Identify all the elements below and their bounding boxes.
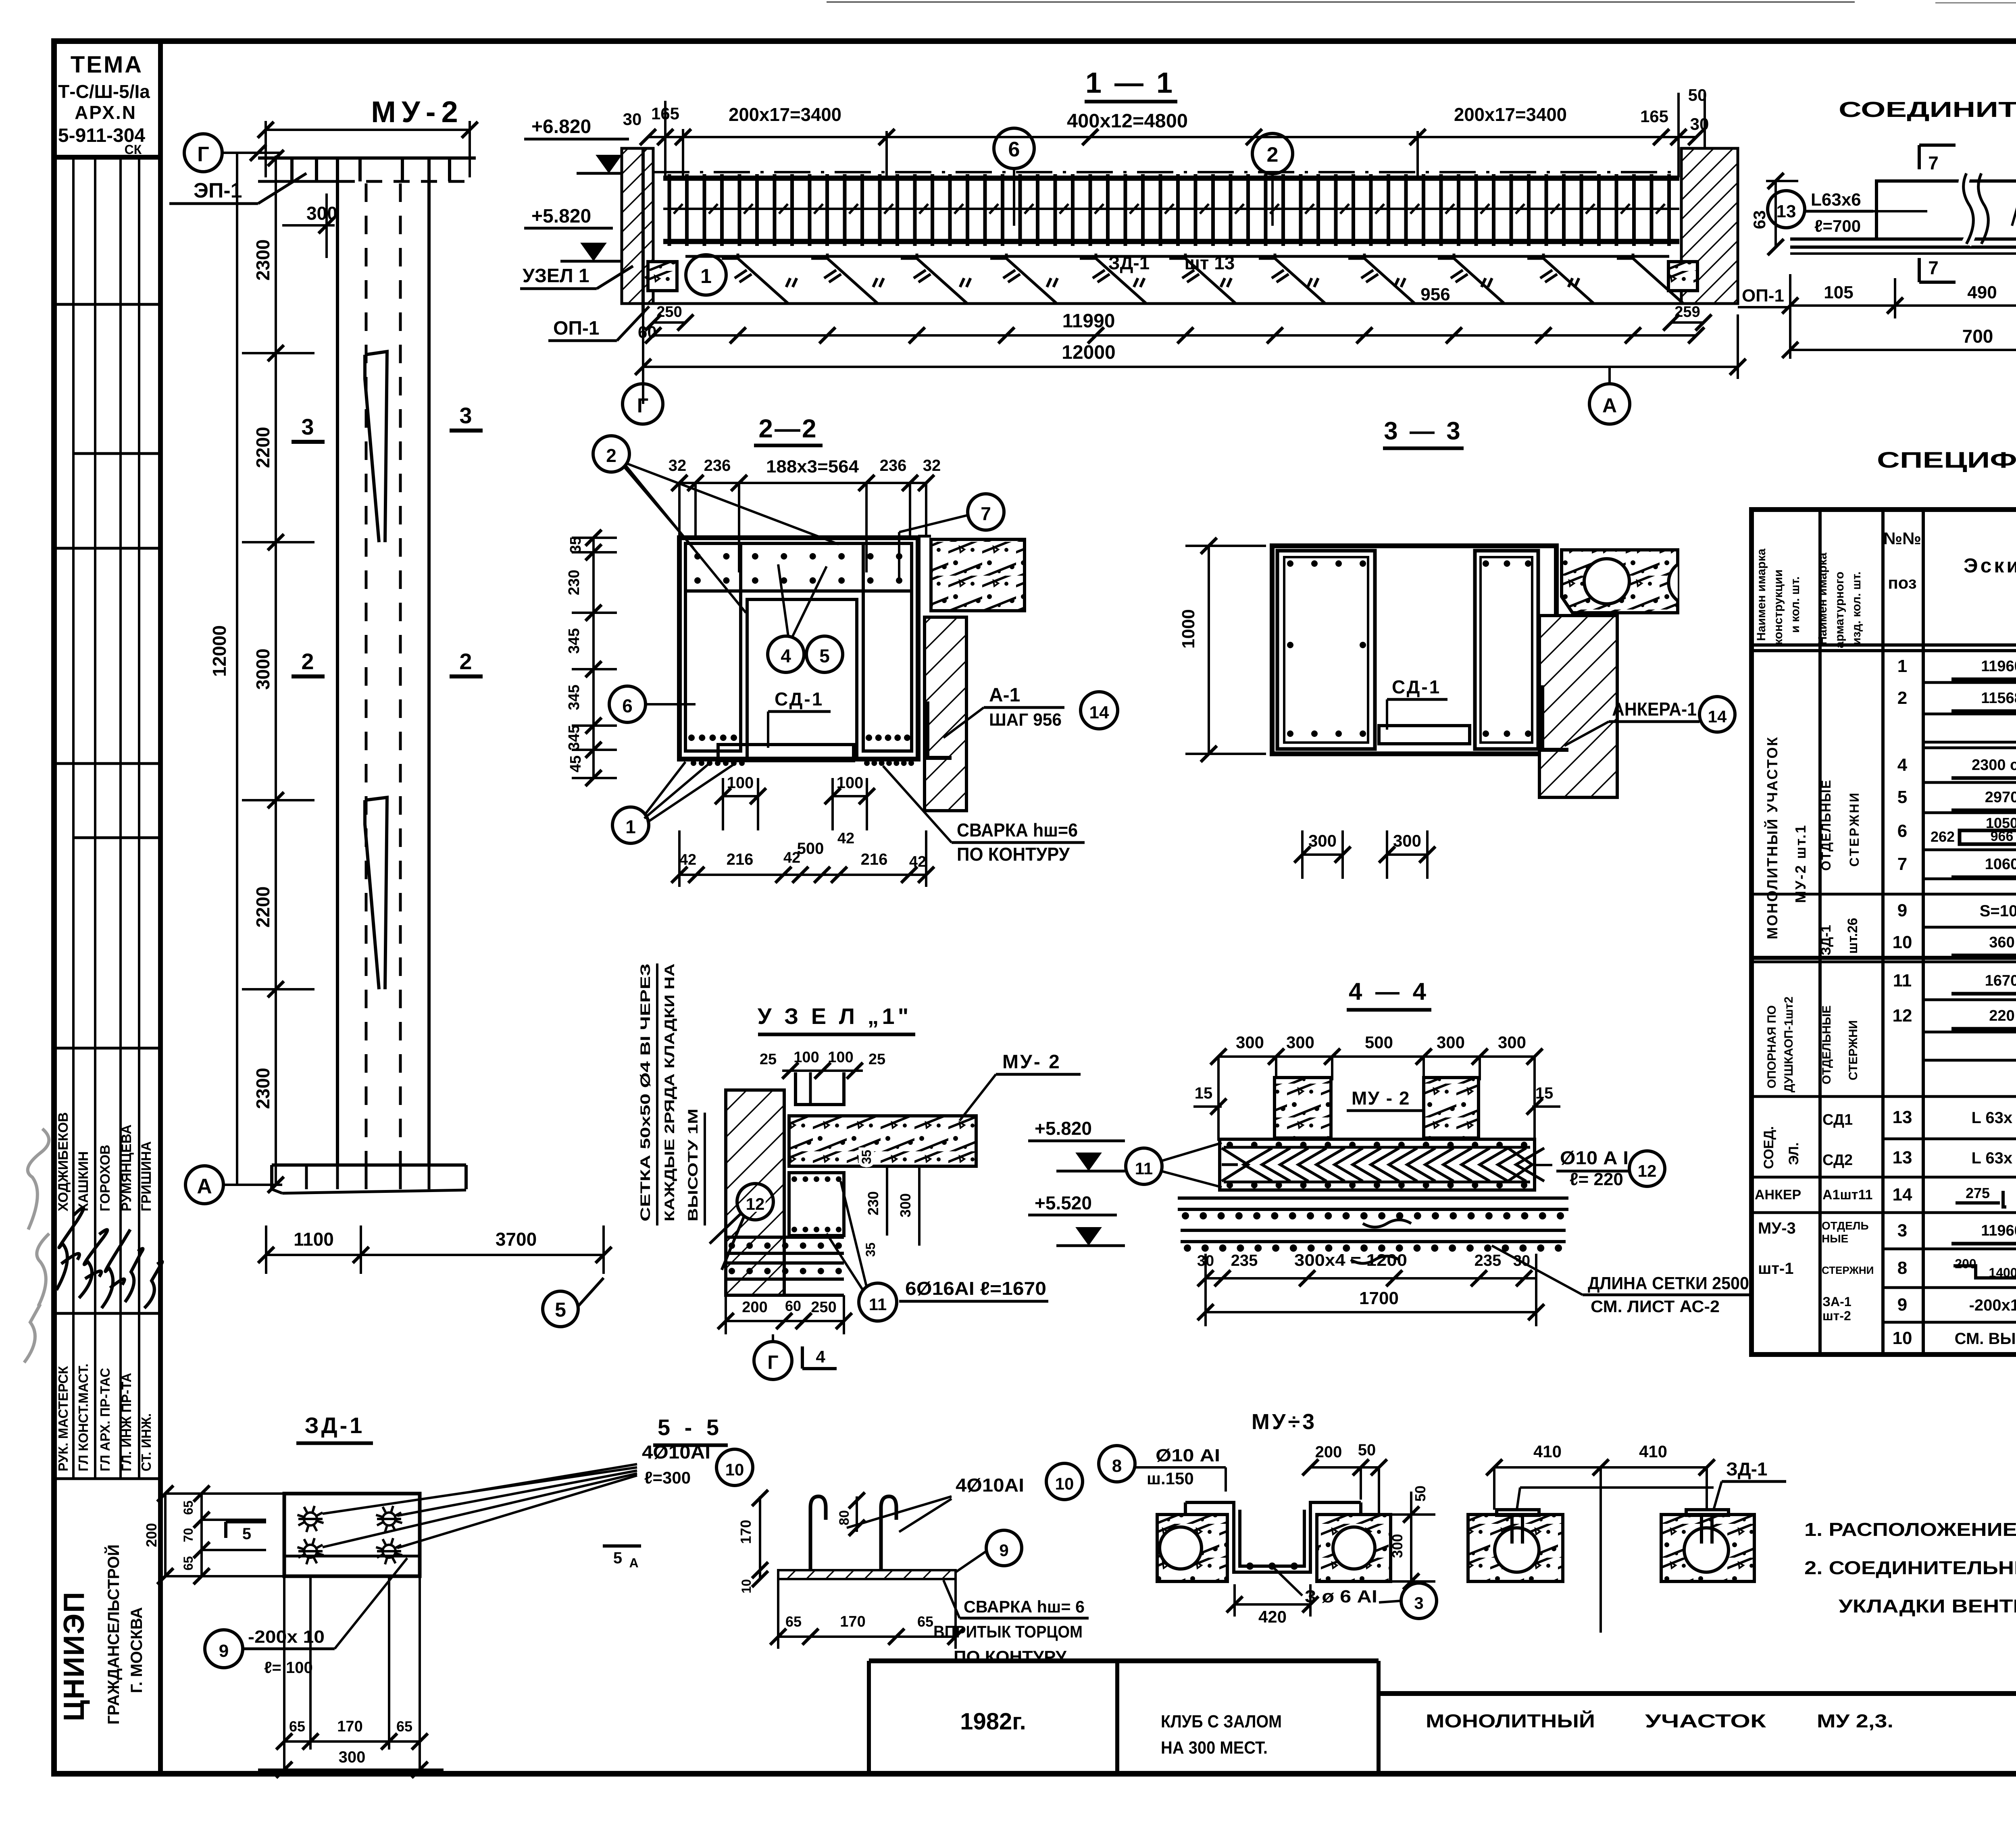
svg-text:15: 15 <box>1535 1084 1554 1102</box>
svg-text:7: 7 <box>1928 152 1939 173</box>
MU-3 right dims 50 300 <box>1410 1492 1412 1581</box>
uzel1 bottom dims 200 60 250 <box>726 1320 844 1322</box>
svg-text:4: 4 <box>781 645 791 666</box>
svg-text:200: 200 <box>143 1523 160 1547</box>
4-4 left block concrete <box>1275 1078 1331 1138</box>
spec table verticals <box>1818 510 1822 1354</box>
svg-text:ГЛ. ИНЖ ПР-ТА: ГЛ. ИНЖ ПР-ТА <box>119 1373 134 1471</box>
svg-text:32: 32 <box>923 457 941 474</box>
svg-text:1400: 1400 <box>1989 1265 2016 1280</box>
svg-text:ЗД-1: ЗД-1 <box>1726 1458 1768 1479</box>
svg-text:МУ 2,3.: МУ 2,3. <box>1817 1710 1893 1731</box>
3-3 anchor bracket <box>1542 685 1568 750</box>
svg-text:11568: 11568 <box>1981 690 2016 707</box>
flag 5 left <box>226 1520 266 1523</box>
svg-text:арматурного: арматурного <box>1833 572 1846 648</box>
svg-text:2: 2 <box>606 445 616 466</box>
svg-text:У З Е Л „1": У З Е Л „1" <box>758 1003 912 1029</box>
circled 6 on beam <box>994 128 1034 169</box>
svg-text:СТЕРЖНИ: СТЕРЖНИ <box>1847 1020 1860 1080</box>
svg-text:5: 5 <box>1897 787 1907 807</box>
svg-text:13: 13 <box>1893 1148 1912 1167</box>
svg-text:5: 5 <box>242 1525 251 1543</box>
svg-text:10: 10 <box>1893 932 1912 952</box>
svg-text:8: 8 <box>1897 1258 1907 1278</box>
svg-text:4: 4 <box>816 1347 825 1366</box>
svg-text:РУК. МАСТЕРСК: РУК. МАСТЕРСК <box>56 1366 71 1471</box>
svg-text:+5.820: +5.820 <box>531 206 591 227</box>
svg-text:236: 236 <box>880 457 907 474</box>
svg-text:РУМЯНЦЕВА: РУМЯНЦЕВА <box>119 1124 134 1211</box>
svg-text:УЧАСТОК: УЧАСТОК <box>1645 1710 1766 1731</box>
MU-2 bottom dim line <box>266 1254 605 1256</box>
4-4 lower band 2 <box>1181 1229 1566 1232</box>
svg-text:3 ø 6 АI: 3 ø 6 АI <box>1305 1587 1377 1606</box>
svg-text:ВЫСОТУ 1М: ВЫСОТУ 1М <box>685 1109 701 1221</box>
svg-text:13: 13 <box>1893 1107 1912 1127</box>
circles 4 5 <box>768 636 804 672</box>
MU-3 right slab <box>1317 1515 1391 1581</box>
svg-text:КЛУБ С ЗАЛОМ: КЛУБ С ЗАЛОМ <box>1161 1712 1282 1731</box>
svg-text:Г: Г <box>637 394 648 417</box>
svg-text:СТЕРЖНИ: СТЕРЖНИ <box>1822 1264 1874 1276</box>
svg-text:10: 10 <box>1055 1474 1074 1493</box>
3-3 right cage <box>1475 551 1538 749</box>
circled 2 on beam <box>1252 133 1293 174</box>
svg-text:ПО КОНТУРУ: ПО КОНТУРУ <box>957 844 1070 865</box>
svg-text:300: 300 <box>1393 831 1421 850</box>
svg-text:2300: 2300 <box>252 239 273 281</box>
strip signatures scribbles <box>56 1208 83 1290</box>
ZD-1 plate <box>284 1494 420 1576</box>
svg-text:ЦНИИЭП: ЦНИИЭП <box>58 1591 90 1721</box>
svg-text:11960: 11960 <box>1981 658 2016 675</box>
svg-text:200: 200 <box>1315 1443 1342 1461</box>
2-2 right slab concrete <box>931 539 1025 611</box>
svg-text:5: 5 <box>613 1549 622 1567</box>
svg-text:-200х 10: -200х 10 <box>248 1627 325 1647</box>
svg-text:ℓ=700: ℓ=700 <box>1814 216 1861 235</box>
svg-text:Ø10 АI: Ø10 АI <box>1156 1446 1220 1465</box>
svg-text:4: 4 <box>1897 755 1908 775</box>
svg-text:2970: 2970 <box>1985 789 2016 806</box>
svg-text:ГОРОХОВ: ГОРОХОВ <box>98 1145 113 1211</box>
circle 13 SD-1 <box>1768 191 1805 228</box>
3-3 hollow slab right <box>1562 550 1678 613</box>
svg-text:235: 235 <box>1231 1252 1258 1269</box>
svg-text:262: 262 <box>1931 828 1955 845</box>
svg-text:МУ- 2: МУ- 2 <box>1002 1051 1061 1073</box>
axis circle A bottom <box>185 1166 223 1204</box>
embedded ZD-1 plates right pair <box>1497 1510 1539 1515</box>
svg-text:12: 12 <box>1893 1006 1912 1026</box>
strip dividers <box>54 303 160 306</box>
svg-text:НЫЕ: НЫЕ <box>1822 1232 1848 1245</box>
svg-text:35: 35 <box>859 1150 874 1164</box>
bent rebar splice bottom <box>365 797 387 989</box>
svg-text:5: 5 <box>819 645 830 666</box>
svg-text:956: 956 <box>1420 285 1450 304</box>
circle 6 leader 2-2 <box>609 686 646 722</box>
5-5 base plate hatched <box>778 1570 956 1579</box>
svg-text:Т-С/Ш-5/Iа: Т-С/Ш-5/Iа <box>58 81 150 102</box>
svg-text:200x17=3400: 200x17=3400 <box>729 104 841 125</box>
svg-text:ℓ=300: ℓ=300 <box>644 1468 691 1487</box>
svg-text:СВАРКА hш=6: СВАРКА hш=6 <box>957 820 1078 841</box>
svg-text:и кол. шт.: и кол. шт. <box>1789 576 1802 633</box>
svg-text:СЕТКА 50х50 Ø4 ВI ЧЕРЕЗ: СЕТКА 50х50 Ø4 ВI ЧЕРЕЗ <box>638 963 653 1221</box>
svg-text:2—2: 2—2 <box>758 414 818 443</box>
svg-text:300: 300 <box>1308 831 1337 850</box>
svg-text:100: 100 <box>727 774 754 792</box>
svg-text:3: 3 <box>301 414 314 439</box>
svg-text:42: 42 <box>909 853 926 870</box>
3-3 outline <box>1272 546 1556 754</box>
svg-text:АРХ.N: АРХ.N <box>75 102 137 123</box>
2-2 dim 100 100 <box>723 795 758 797</box>
svg-text:65: 65 <box>917 1613 933 1630</box>
svg-text:1000: 1000 <box>1179 609 1198 649</box>
svg-text:259: 259 <box>1674 304 1700 320</box>
svg-text:7: 7 <box>1928 257 1939 278</box>
svg-text:165: 165 <box>1640 107 1668 126</box>
svg-text:250: 250 <box>656 304 682 320</box>
uzel1 small channel top <box>796 1072 844 1105</box>
svg-text:МУ-2: МУ-2 <box>371 95 463 129</box>
svg-text:500: 500 <box>797 840 824 857</box>
svg-text:7: 7 <box>1897 854 1907 874</box>
svg-text:НА 300 МЕСТ.: НА 300 МЕСТ. <box>1161 1738 1268 1758</box>
svg-text:300: 300 <box>1437 1033 1465 1052</box>
uzel1 rebar cage below slab <box>789 1173 844 1236</box>
svg-text:2300: 2300 <box>252 1068 273 1109</box>
circle 9 label ZD-1 <box>205 1630 243 1668</box>
svg-text:2: 2 <box>1267 143 1279 166</box>
svg-text:11: 11 <box>1893 971 1912 990</box>
svg-text:1: 1 <box>700 265 712 287</box>
SD-1 dim line 700 <box>1790 349 2016 351</box>
svg-text:170: 170 <box>737 1520 754 1544</box>
svg-text:275: 275 <box>1966 1185 1990 1201</box>
svg-text:5 - 5: 5 - 5 <box>658 1415 723 1440</box>
svg-text:50: 50 <box>1358 1441 1376 1459</box>
svg-text:25: 25 <box>868 1051 885 1068</box>
svg-text:2200: 2200 <box>252 886 273 928</box>
svg-text:1100: 1100 <box>294 1229 334 1250</box>
4-4 beam band chevrons <box>1220 1139 1535 1190</box>
svg-text:МУ - 2: МУ - 2 <box>1352 1088 1410 1109</box>
pencil marks left margin <box>24 1129 49 1363</box>
flag 4 uzel <box>801 1346 804 1369</box>
beam bottom zone with ZD-1 hooks <box>685 255 1669 258</box>
svg-text:ТЕМА: ТЕМА <box>71 52 143 78</box>
svg-text:400x12=4800: 400x12=4800 <box>1067 110 1188 132</box>
svg-text:L 63x 6: L 63x 6 <box>1972 1109 2016 1127</box>
svg-text:ДУШКАОП-1шт2: ДУШКАОП-1шт2 <box>1782 997 1795 1092</box>
signature strip columns <box>72 157 75 1479</box>
svg-text:ГРИШИНА: ГРИШИНА <box>139 1141 154 1211</box>
svg-text:966: 966 <box>1991 829 2014 844</box>
2-2 bottom weld dots <box>691 760 696 766</box>
svg-text:216: 216 <box>861 851 888 868</box>
svg-text:СД2: СД2 <box>1822 1152 1853 1169</box>
svg-text:ОТДЕЛЬНЫЕ: ОТДЕЛЬНЫЕ <box>1819 779 1833 871</box>
svg-text:СД-1: СД-1 <box>775 689 824 709</box>
svg-text:Эскиз: Эскиз <box>1964 554 2016 577</box>
svg-text:2: 2 <box>459 649 472 674</box>
svg-text:300: 300 <box>339 1748 366 1766</box>
svg-text:42: 42 <box>837 830 854 847</box>
svg-text:СПЕЦИФИКАЦИЯ: СПЕЦИФИКАЦИЯ <box>1877 447 2016 472</box>
svg-text:МУ÷3: МУ÷3 <box>1252 1410 1317 1434</box>
axis circle A beam <box>1589 384 1630 424</box>
beam top line <box>653 171 1681 173</box>
svg-text:170: 170 <box>337 1718 362 1735</box>
svg-text:ХОДЖИБЕКОВ: ХОДЖИБЕКОВ <box>56 1112 71 1211</box>
svg-text:420: 420 <box>1258 1607 1287 1626</box>
svg-text:12000: 12000 <box>209 625 230 677</box>
svg-text:ГРАЖДАНСЕЛЬСТРОЙ: ГРАЖДАНСЕЛЬСТРОЙ <box>104 1544 123 1725</box>
2-2 top dim line <box>679 482 926 484</box>
svg-text:СМ. ВЫШЕ: СМ. ВЫШЕ <box>1955 1330 2016 1348</box>
svg-text:9: 9 <box>219 1641 229 1661</box>
2-2 left dim chain <box>592 538 595 778</box>
circle 7 leader 2-2 <box>968 494 1004 530</box>
svg-text:6Ø16АI ℓ=1670: 6Ø16АI ℓ=1670 <box>905 1278 1046 1299</box>
svg-text:L63x6: L63x6 <box>1811 190 1861 210</box>
svg-text:ЭП-1: ЭП-1 <box>194 179 242 202</box>
svg-text:236: 236 <box>704 457 731 474</box>
svg-text:СК: СК <box>125 142 142 157</box>
svg-text:1: 1 <box>625 816 636 837</box>
2-2 SD-1 plate bottom <box>718 745 854 761</box>
svg-text:+5.820: +5.820 <box>1035 1118 1092 1139</box>
2-2 main outline <box>679 538 918 759</box>
svg-text:шт-2: шт-2 <box>1822 1309 1851 1323</box>
MU-3 channel between slabs <box>1185 1502 1361 1572</box>
svg-text:КАШКИН: КАШКИН <box>76 1151 91 1211</box>
svg-text:1 — 1: 1 — 1 <box>1085 67 1175 99</box>
svg-text:300х4 = 1200: 300х4 = 1200 <box>1294 1250 1407 1269</box>
svg-text:345: 345 <box>566 628 583 653</box>
svg-text:7: 7 <box>981 503 991 524</box>
title block top edges <box>869 1658 1379 1663</box>
svg-text:S=10: S=10 <box>1980 902 2016 920</box>
svg-text:188x3=564: 188x3=564 <box>766 457 859 476</box>
svg-text:500: 500 <box>1365 1033 1393 1052</box>
svg-text:изд. кол. шт.: изд. кол. шт. <box>1850 572 1863 645</box>
svg-text:9: 9 <box>999 1541 1008 1560</box>
MU-3 dim 420 <box>1235 1603 1310 1606</box>
svg-text:170: 170 <box>840 1613 865 1630</box>
svg-text:11960: 11960 <box>1981 1222 2016 1239</box>
4-4 top dim line <box>1218 1055 1535 1058</box>
uzel1 slab concrete MU-2 <box>789 1116 976 1166</box>
svg-text:А1шт11: А1шт11 <box>1822 1187 1872 1203</box>
svg-text:+6.820: +6.820 <box>531 116 591 137</box>
svg-text:60: 60 <box>638 322 657 341</box>
3-3 wall below hatched <box>1539 616 1617 797</box>
svg-text:230: 230 <box>865 1191 881 1215</box>
svg-text:50: 50 <box>1412 1486 1429 1502</box>
svg-text:10: 10 <box>1893 1328 1912 1348</box>
svg-text:2: 2 <box>1897 688 1907 708</box>
2-2 left cage <box>685 543 741 751</box>
svg-text:410: 410 <box>1533 1442 1562 1461</box>
svg-text:ОПОРНАЯ ПО: ОПОРНАЯ ПО <box>1765 1005 1779 1088</box>
svg-text:шт.26: шт.26 <box>1845 918 1860 954</box>
uzel1 masonry wall hatched <box>726 1090 784 1295</box>
svg-text:200x17=3400: 200x17=3400 <box>1454 104 1567 125</box>
svg-text:ш.150: ш.150 <box>1147 1469 1194 1488</box>
svg-text:32: 32 <box>669 457 687 474</box>
svg-text:МОНОЛИТНЫЙ: МОНОЛИТНЫЙ <box>1426 1710 1595 1731</box>
dim line 12000 <box>643 366 1738 368</box>
svg-text:30: 30 <box>623 110 642 129</box>
anchor A-1 bracket <box>927 701 952 758</box>
dim line 11990 <box>653 334 1696 337</box>
svg-text:СВАРКА hш= 6: СВАРКА hш= 6 <box>964 1597 1085 1616</box>
svg-text:А: А <box>197 1175 212 1198</box>
svg-text:300: 300 <box>1286 1033 1314 1052</box>
svg-text:14: 14 <box>1708 707 1727 726</box>
svg-text:Г. МОСКВА: Г. МОСКВА <box>128 1607 146 1693</box>
svg-text:шт-1: шт-1 <box>1758 1260 1794 1277</box>
2-2 middle opening <box>747 599 857 759</box>
MU-2 column footing <box>272 1163 466 1167</box>
svg-text:МУ-3: МУ-3 <box>1758 1219 1796 1237</box>
svg-text:30: 30 <box>1690 114 1709 133</box>
svg-text:15: 15 <box>1195 1084 1213 1102</box>
axis circle G beam <box>623 384 663 424</box>
svg-text:ДЛИНА СЕТКИ 2500: ДЛИНА СЕТКИ 2500 <box>1588 1273 1749 1293</box>
svg-text:поз: поз <box>1888 573 1916 592</box>
2-2 top rebar band <box>685 542 912 545</box>
svg-text:8: 8 <box>1112 1456 1122 1476</box>
spec table row lines <box>1923 681 2016 684</box>
svg-text:345: 345 <box>566 725 583 750</box>
svg-text:А: А <box>1602 394 1617 417</box>
4-4 bottom dim chain <box>1206 1277 1536 1280</box>
svg-text:9: 9 <box>1897 1295 1907 1315</box>
svg-text:3: 3 <box>1414 1594 1423 1612</box>
ZD-1 left dims <box>200 1494 203 1576</box>
svg-text:216: 216 <box>727 851 754 868</box>
svg-text:14: 14 <box>1893 1185 1912 1205</box>
svg-text:СОЕДИНИТЕЛЬНАЯ: СОЕДИНИТЕЛЬНАЯ <box>1839 98 2016 122</box>
svg-text:СТ. ИНЖ.: СТ. ИНЖ. <box>139 1413 154 1471</box>
beam rebar cage 1-1 <box>663 176 1679 181</box>
svg-text:14: 14 <box>1089 703 1109 722</box>
svg-text:65: 65 <box>181 1556 196 1571</box>
svg-text:250: 250 <box>811 1299 836 1316</box>
2-2 right cage <box>863 543 912 751</box>
svg-text:Наимен имарка: Наимен имарка <box>1816 553 1829 645</box>
svg-text:42: 42 <box>679 851 696 868</box>
5-5 left hook bar <box>810 1496 826 1570</box>
svg-text:11: 11 <box>1135 1159 1153 1178</box>
svg-text:Г: Г <box>767 1352 778 1373</box>
svg-text:60: 60 <box>785 1298 801 1314</box>
svg-text:200: 200 <box>1955 1257 1976 1271</box>
svg-text:ЗД-1: ЗД-1 <box>1818 925 1834 955</box>
MU-2 top dimension line <box>266 129 470 131</box>
svg-text:1: 1 <box>1897 656 1907 676</box>
svg-text:300: 300 <box>1236 1033 1264 1052</box>
3-3 bottom dims 300 300 <box>1302 853 1343 856</box>
spec table outer <box>1752 510 2016 1354</box>
svg-text:65: 65 <box>181 1500 196 1515</box>
axis circle G uzel <box>754 1342 792 1379</box>
circle 1 leader 2-2 <box>612 807 649 843</box>
svg-text:12000: 12000 <box>1062 342 1115 363</box>
4-4 dim 1700 <box>1206 1311 1536 1313</box>
svg-text:3000: 3000 <box>252 649 273 690</box>
svg-text:А: А <box>629 1556 638 1570</box>
svg-text:L 63x 6: L 63x 6 <box>1972 1149 2016 1167</box>
svg-text:ЭЛ.: ЭЛ. <box>1786 1142 1801 1165</box>
svg-text:35: 35 <box>863 1242 878 1257</box>
svg-text:Наимен имарка: Наимен имарка <box>1755 549 1768 641</box>
svg-text:12: 12 <box>1638 1161 1657 1180</box>
svg-text:АНКЕРА-1: АНКЕРА-1 <box>1612 699 1697 720</box>
break marks SD-1 <box>1964 173 1974 244</box>
svg-text:Г: Г <box>197 143 209 166</box>
svg-text:МУ-2 шт.1: МУ-2 шт.1 <box>1792 824 1809 903</box>
svg-text:1982г.: 1982г. <box>960 1708 1026 1735</box>
circle 5 below MU-2 <box>543 1291 578 1327</box>
MU-3 right pair slabs with ZD-1 <box>1468 1515 1563 1581</box>
2-2 right wall hatched <box>925 617 966 811</box>
svg-text:100: 100 <box>828 1049 853 1066</box>
spec section dividers <box>1752 956 2016 960</box>
bent rebar splice top <box>365 352 387 542</box>
svg-text:ГЛ АРХ. ПР-ТАС: ГЛ АРХ. ПР-ТАС <box>98 1368 112 1471</box>
4-4 lower band 1 (mesh with studs) <box>1178 1196 1568 1200</box>
svg-text:6: 6 <box>1008 138 1020 161</box>
flag 5A right <box>603 1544 641 1548</box>
svg-text:45: 45 <box>567 755 584 772</box>
svg-text:+5.520: +5.520 <box>1035 1192 1092 1213</box>
svg-text:ℓ= 100: ℓ= 100 <box>264 1659 313 1677</box>
svg-text:70: 70 <box>181 1528 196 1542</box>
svg-text:2. СОЕДИНИТЕЛЬНЫЙ ЭЛЕМЕНТ СД: 2. СОЕДИНИТЕЛЬНЫЙ ЭЛЕМЕНТ СД-1 (СД-2) ПР… <box>1804 1557 2016 1578</box>
svg-text:-200х10: -200х10 <box>1969 1296 2016 1314</box>
circle 12 uzel <box>737 1184 773 1220</box>
svg-text:65: 65 <box>289 1718 305 1735</box>
svg-text:80: 80 <box>837 1510 852 1525</box>
svg-text:ЗД-1: ЗД-1 <box>305 1413 365 1438</box>
MU-3 410 410 dims <box>1494 1466 1707 1469</box>
svg-text:11: 11 <box>869 1295 887 1314</box>
svg-text:2300 ср.: 2300 ср. <box>1972 757 2016 774</box>
repeat quote marks <box>786 278 1579 287</box>
SD-1 angle side view <box>1876 181 2016 239</box>
svg-text:1060: 1060 <box>1985 856 2016 873</box>
5-5 bottom dims <box>778 1635 956 1638</box>
svg-text:ОТДЕЛЬНЫЕ: ОТДЕЛЬНЫЕ <box>1820 1005 1833 1084</box>
svg-text:ГЛ КОНСТ.МАСТ.: ГЛ КОНСТ.МАСТ. <box>76 1363 91 1471</box>
svg-text:5: 5 <box>555 1298 566 1321</box>
left strip divider <box>158 41 163 1774</box>
right wall hatched 1-1 <box>1681 148 1738 304</box>
svg-text:ШАГ 956: ШАГ 956 <box>989 710 1062 730</box>
svg-text:13: 13 <box>1776 202 1796 221</box>
svg-text:1. РАСПОЛОЖЕНИЕ МУ-2,3см. ПЛА: 1. РАСПОЛОЖЕНИЕ МУ-2,3см. ПЛАН ПОКРЫТИЯ … <box>1804 1519 2016 1540</box>
left wall hatched 1-1 <box>622 148 653 304</box>
svg-text:4 — 4: 4 — 4 <box>1349 978 1429 1005</box>
svg-text:235: 235 <box>1475 1252 1502 1269</box>
